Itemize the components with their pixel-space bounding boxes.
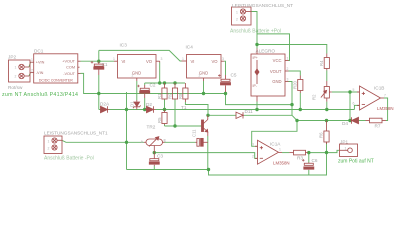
- node wiper branch on D4 row: [348, 119, 351, 122]
- svg-text:5: 5: [353, 88, 355, 92]
- wire C5 bottom node down and right to ALEGRO gnd column: [226, 94, 293, 105]
- wire C6 bottom to bus: [308, 170, 310, 175]
- wire line B jog up to IC1B minus input: [354, 105, 359, 109]
- svg-text:JP2: JP2: [8, 55, 16, 60]
- svg-text:-VOUT: -VOUT: [63, 72, 75, 76]
- wire feedback from D4 row node down to y131 and left to IC1A plus: [252, 121, 297, 147]
- wire bus jog: [209, 153, 327, 176]
- svg-text:1: 1: [15, 66, 17, 70]
- svg-text:JP1: JP1: [340, 140, 348, 145]
- svg-text:D1: D1: [130, 101, 135, 107]
- svg-text:VOUT: VOUT: [270, 69, 282, 74]
- wire DC1 +VOUT to IC3 VI: [81, 60, 115, 62]
- svg-text:1: 1: [48, 140, 50, 144]
- wire C2 top: [144, 83, 146, 85]
- wire T1 base wire: [165, 125, 202, 127]
- wire R_a bottom to line B: [164, 99, 166, 110]
- wire vertical x126.5 ground riser: [126, 92, 128, 170]
- node R_a / R_x on line B: [163, 108, 166, 111]
- resistor R20: [298, 76, 303, 94]
- wire C1 bottom to node: [98, 75, 100, 94]
- diode D2A: [101, 106, 110, 112]
- wire R_c bottom jog right and down to node: [185, 102, 208, 115]
- capacitor C6: [304, 163, 314, 171]
- voltage regulator IC3: [114, 55, 160, 82]
- wire IC3 VO down to resistor-top rail: [159, 63, 161, 84]
- wire y92 rail C1 to C5: [99, 93, 226, 95]
- wire ALEGRO GND column down: [289, 82, 293, 116]
- wire branch to ALEGRO VCC: [257, 34, 290, 61]
- svg-text:R2: R2: [312, 94, 317, 100]
- DC/DC converter DC1: [31, 54, 81, 83]
- connector JP2: [9, 60, 31, 82]
- svg-text:IC4: IC4: [186, 45, 194, 50]
- wire JP2 pin2 to DC1 -VIN: [29, 73, 31, 76]
- svg-text:VO: VO: [146, 59, 153, 64]
- svg-text:C6: C6: [312, 158, 318, 163]
- wire TR2 right lead to C11: [165, 141, 196, 143]
- zener diode D1: [133, 100, 141, 110]
- svg-text:C5: C5: [231, 73, 237, 78]
- svg-text:LM358N: LM358N: [377, 106, 394, 111]
- node T1 emitter on ground bus: [207, 168, 210, 171]
- wire: [359, 120, 366, 122]
- svg-text:R3: R3: [297, 156, 303, 161]
- red value texts: [39, 79, 394, 166]
- svg-text:GND: GND: [272, 79, 281, 84]
- voltage regulator IC4: [182, 55, 225, 82]
- svg-text:IC3: IC3: [120, 43, 128, 48]
- svg-text:2: 2: [252, 155, 254, 159]
- node IC4 GND on y92 rail: [202, 92, 205, 95]
- node DC1 +VOUT / C1 / riser: [97, 60, 100, 63]
- wire bottom connector to TR2 row: [62, 140, 144, 142]
- wire: [156, 109, 355, 111]
- wire left ground bus: [127, 169, 209, 171]
- diode D11: [236, 112, 244, 118]
- svg-text:2: 2: [236, 18, 238, 22]
- svg-text:C1: C1: [102, 62, 108, 67]
- wire line C with D11: [208, 114, 236, 116]
- diode D2: [145, 106, 156, 112]
- svg-text:R6: R6: [319, 132, 324, 138]
- rotated gray names: [130, 60, 324, 138]
- gray names: [8, 3, 384, 163]
- connector LEISTUNGSANSCHLUS_NT1 (battery - pole): [44, 136, 62, 154]
- trimmer TR2: [144, 137, 165, 153]
- svg-text:C2: C2: [150, 83, 156, 88]
- resistor R_c: [183, 83, 188, 102]
- svg-text:D11: D11: [245, 109, 254, 114]
- wire line B (-VOUT rail with diodes): [98, 94, 100, 110]
- svg-text:TR2: TR2: [147, 125, 156, 130]
- svg-text:LEISTUNGSANSCHLUS_NT1: LEISTUNGSANSCHLUS_NT1: [44, 131, 108, 136]
- svg-text:IC1A: IC1A: [270, 142, 281, 147]
- svg-text:E: E: [164, 138, 167, 143]
- wire R3 to JP1: [308, 150, 340, 152]
- node R_b on T1 base wire: [173, 124, 176, 127]
- wire top rail to IC4 VI: [99, 50, 182, 61]
- op-amp IC1B: [357, 86, 384, 110]
- wire C6 top: [308, 153, 310, 163]
- node battery plus branch: [255, 43, 258, 46]
- node connector wire on ground riser: [125, 141, 128, 144]
- svg-text:R8: R8: [178, 93, 183, 99]
- resistor R_a: [162, 83, 167, 100]
- svg-text:DC1: DC1: [34, 48, 44, 53]
- connector LEISTUNGSANSCHLUS_NT (battery + pole): [232, 7, 252, 25]
- svg-text:Anschluß Batterie +Pol: Anschluß Batterie +Pol: [230, 29, 281, 35]
- wire D4/R7 row: [297, 120, 351, 122]
- svg-text:R7: R7: [375, 124, 381, 129]
- wire C3 bottom to bus: [153, 166, 155, 170]
- svg-text:C11: C11: [192, 129, 197, 137]
- node IP- on line B: [255, 108, 258, 111]
- svg-text:2: 2: [287, 67, 289, 71]
- node C1 bottom on y92 rail: [97, 92, 100, 95]
- wire R_x bottom corner: [164, 125, 166, 127]
- node TR2 wiper / C3 / IC1A minus: [153, 151, 156, 154]
- svg-text:GND: GND: [199, 71, 208, 76]
- svg-text:2: 2: [48, 147, 50, 151]
- transistor T1: [202, 115, 208, 136]
- svg-text:1: 1: [31, 58, 33, 62]
- svg-text:GND: GND: [132, 71, 141, 76]
- wire TR2 wiper node to IC1A minus: [154, 153, 257, 159]
- svg-text:R9: R9: [168, 93, 173, 99]
- svg-text:3: 3: [252, 143, 254, 147]
- node C5 bottom on y92 rail: [224, 92, 227, 95]
- resistor R6: [324, 121, 329, 145]
- plus marks of polarized capacitors: [91, 61, 305, 162]
- node C2 bottom on line B: [143, 108, 146, 111]
- svg-text:6: 6: [353, 102, 355, 106]
- svg-text:1: 1: [279, 148, 281, 152]
- op-amp IC1A: [255, 140, 282, 164]
- svg-text:+VIN: +VIN: [36, 61, 45, 65]
- wire IC1A output to R3: [282, 152, 289, 154]
- svg-text:2: 2: [15, 75, 17, 79]
- wire riser node A to top rail: [98, 50, 100, 61]
- wire resistor top rail: [145, 82, 185, 84]
- wire TR1 bottom to line B: [326, 102, 328, 110]
- svg-text:1: 1: [236, 11, 238, 15]
- wire: [99, 109, 101, 111]
- node TR1 wiper branch: [348, 90, 351, 93]
- svg-text:zum Poti auf NT: zum Poti auf NT: [338, 159, 374, 165]
- svg-text:D2A: D2A: [100, 102, 110, 107]
- svg-text:VI: VI: [191, 59, 195, 64]
- wire R4 bottom to TR1 top: [326, 70, 328, 81]
- svg-text:Rot/sw: Rot/sw: [8, 85, 23, 90]
- svg-text:T1: T1: [181, 105, 187, 110]
- wire: [244, 114, 292, 116]
- resistor R_x: [162, 110, 167, 125]
- svg-text:1: 1: [113, 57, 115, 61]
- node R_a top: [163, 81, 166, 84]
- wire R7 right to IC1B output: [384, 98, 388, 121]
- node C6 top on JP1 wire: [307, 151, 310, 154]
- resistor R3: [289, 150, 307, 155]
- red pin names inside boxes: [36, 56, 282, 88]
- svg-text:A: A: [141, 139, 144, 144]
- wire diagonal down to D4 row: [292, 115, 297, 120]
- node R6 top on D4 row: [325, 119, 328, 122]
- svg-text:-VIN: -VIN: [36, 71, 44, 75]
- svg-text:R5: R5: [157, 117, 162, 123]
- resistor R7: [366, 118, 387, 123]
- trimmer TR1 / R2: [321, 81, 332, 102]
- wire: [110, 109, 147, 111]
- svg-text:3: 3: [161, 57, 163, 61]
- wire T1 emitter down to bus: [207, 136, 209, 170]
- svg-text:IP+: IP+: [253, 56, 258, 60]
- wire branch to R4: [257, 45, 327, 54]
- svg-text:2: 2: [31, 69, 33, 73]
- wire ALEGRO VOUT to R20: [289, 71, 301, 76]
- node IC3 VO on resistor rail: [158, 81, 161, 84]
- wire JP2 pin1 to DC1 +VIN: [29, 62, 31, 67]
- wire ALEGRO IP- down to line B: [256, 102, 258, 110]
- svg-text:zum NT Anschluß P413/P414: zum NT Anschluß P413/P414: [2, 92, 78, 98]
- wire IC4 GND down to y92 rail: [203, 81, 205, 94]
- svg-text:LM358N: LM358N: [273, 161, 290, 166]
- svg-text:Anschluß Batterie -Pol: Anschluß Batterie -Pol: [44, 156, 94, 162]
- wire node to D4 row: [349, 92, 351, 121]
- node R6 on JP1 wire: [325, 151, 328, 154]
- wire R6 bottom through JP1 wire down to bus: [326, 142, 328, 153]
- svg-text:1: 1: [287, 57, 289, 61]
- svg-text:R20: R20: [293, 81, 298, 89]
- svg-text:R1: R1: [157, 93, 162, 99]
- capacitor C5: [221, 75, 231, 92]
- green annotation texts: [2, 29, 374, 165]
- svg-text:3: 3: [222, 57, 224, 61]
- diode D4: [351, 117, 359, 123]
- svg-text:VI: VI: [122, 59, 126, 64]
- resistor R_b: [172, 83, 177, 99]
- wire R_b bottom down to T1 base wire: [174, 99, 176, 126]
- wire R20 bottom to line B: [299, 93, 301, 110]
- svg-text:DC/DC CONVERTER: DC/DC CONVERTER: [39, 79, 73, 83]
- capacitor C11: [196, 138, 208, 146]
- svg-text:COM: COM: [66, 66, 75, 70]
- connector JP1: [340, 144, 358, 157]
- svg-text:1: 1: [182, 57, 184, 61]
- svg-text:3: 3: [287, 78, 289, 82]
- capacitor C3: [149, 153, 159, 166]
- svg-text:ALEGRO: ALEGRO: [256, 49, 276, 54]
- svg-text:1: 1: [345, 147, 347, 151]
- svg-text:D4: D4: [342, 121, 348, 126]
- svg-text:R4: R4: [319, 60, 324, 66]
- svg-text:LEISTUNGSANSCHLUS_NT: LEISTUNGSANSCHLUS_NT: [232, 3, 293, 8]
- node R_b top: [173, 81, 176, 84]
- svg-text:C3: C3: [157, 154, 163, 159]
- svg-text:+VOUT: +VOUT: [62, 60, 75, 64]
- svg-text:D2: D2: [146, 102, 152, 107]
- tiny gray pin numbers: [15, 11, 387, 159]
- svg-text:VCC: VCC: [273, 58, 282, 63]
- capacitor C2: [140, 85, 150, 98]
- wire TR1 wiper to IC1B plus input: [332, 91, 360, 93]
- current sensor IC ALEGRO: [251, 49, 289, 102]
- node ground riser on line B: [125, 108, 128, 111]
- wire battery plus column: [251, 12, 257, 49]
- svg-text:VO: VO: [211, 59, 218, 64]
- wire IC4 VO to C5 top: [224, 61, 226, 75]
- wire C2 bottom to line B: [144, 98, 146, 110]
- node R20 bottom on line B: [299, 108, 302, 111]
- svg-text:IC1B: IC1B: [374, 86, 384, 91]
- node T1 collector on line C: [206, 114, 209, 117]
- wire IC3 GND down to zener D1: [136, 81, 138, 100]
- node y104.6 wire on ALEGRO gnd column: [290, 103, 293, 106]
- node feedback on D4 row: [295, 119, 298, 122]
- resistor R4: [324, 54, 329, 71]
- node TR1 bottom on line B: [325, 108, 328, 111]
- capacitor C1: [94, 61, 104, 75]
- svg-text:7: 7: [384, 94, 386, 98]
- wire DC1 -VOUT down to line B: [81, 73, 99, 93]
